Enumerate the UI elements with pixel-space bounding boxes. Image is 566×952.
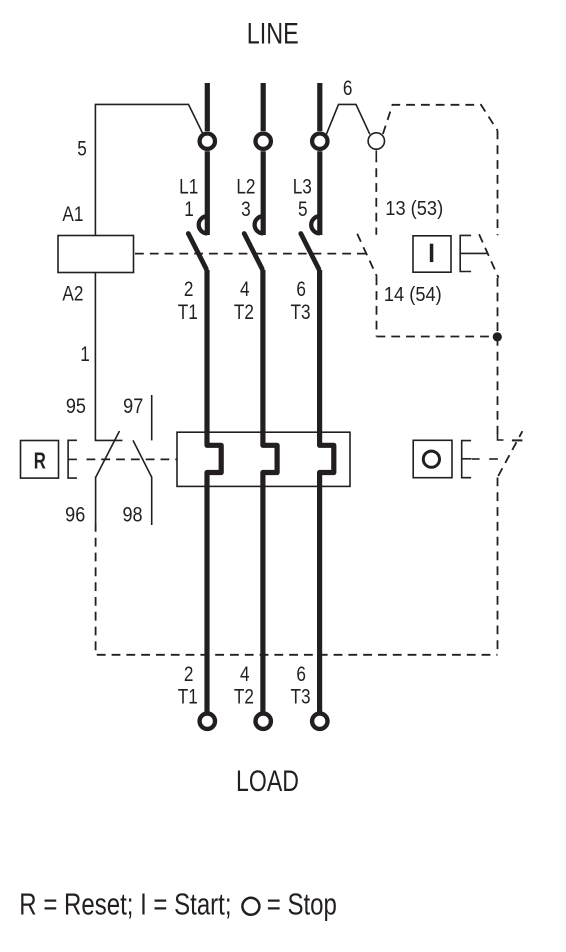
- svg-text:1: 1: [184, 197, 194, 221]
- svg-text:T2: T2: [234, 685, 254, 709]
- svg-text:13 (53): 13 (53): [385, 198, 443, 220]
- svg-text:T3: T3: [290, 685, 310, 709]
- svg-text:T3: T3: [290, 300, 310, 324]
- svg-text:2: 2: [184, 277, 194, 301]
- svg-text:98: 98: [122, 503, 142, 527]
- svg-text:A2: A2: [62, 282, 83, 306]
- svg-text:A1: A1: [62, 202, 83, 226]
- svg-text:1: 1: [80, 342, 90, 366]
- svg-text:R = Reset; I = Start;: R = Reset; I = Start;: [19, 887, 231, 922]
- svg-text:R: R: [34, 449, 46, 474]
- svg-text:5: 5: [298, 197, 308, 221]
- svg-text:L2: L2: [236, 175, 255, 199]
- svg-text:4: 4: [240, 277, 250, 301]
- svg-text:= Stop: = Stop: [267, 887, 337, 922]
- svg-text:4: 4: [240, 662, 250, 686]
- svg-text:2: 2: [184, 662, 194, 686]
- svg-text:97: 97: [123, 394, 143, 418]
- svg-text:LOAD: LOAD: [236, 764, 299, 798]
- svg-text:T1: T1: [178, 300, 198, 324]
- svg-text:14 (54): 14 (54): [384, 284, 442, 306]
- svg-text:T2: T2: [234, 300, 254, 324]
- svg-text:LINE: LINE: [247, 17, 299, 50]
- svg-text:6: 6: [296, 277, 306, 301]
- svg-text:3: 3: [241, 197, 251, 221]
- svg-text:L1: L1: [179, 175, 198, 199]
- svg-text:L3: L3: [293, 175, 312, 199]
- svg-text:5: 5: [77, 137, 87, 161]
- svg-text:6: 6: [343, 76, 353, 100]
- svg-text:T1: T1: [178, 685, 198, 709]
- svg-text:95: 95: [66, 394, 86, 418]
- svg-text:6: 6: [296, 662, 306, 686]
- svg-text:96: 96: [65, 503, 85, 527]
